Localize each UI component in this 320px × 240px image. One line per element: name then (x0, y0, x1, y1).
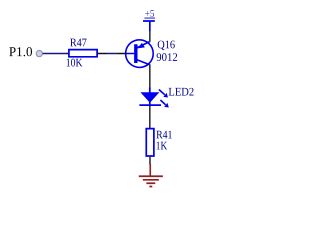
svg-text:R47: R47 (70, 36, 87, 49)
wire (107, 53, 118, 55)
resistor R47 (69, 50, 97, 57)
svg-text:P1.0: P1.0 (9, 44, 33, 59)
wire (149, 31, 151, 42)
svg-text:LED2: LED2 (168, 86, 194, 99)
svg-text:9012: 9012 (156, 51, 178, 64)
wire (149, 106, 151, 128)
svg-text:1K: 1K (156, 139, 168, 152)
resistor R41 (146, 129, 154, 156)
power +5 (143, 9, 155, 31)
svg-text:Q16: Q16 (157, 38, 175, 51)
svg-text:10K: 10K (66, 56, 83, 69)
wire (149, 156, 151, 165)
wire (149, 65, 151, 89)
LED LED2 (139, 88, 168, 108)
resistor R47 left pin (67, 52, 70, 54)
ground (139, 164, 163, 187)
transistor Q16 (126, 40, 154, 68)
resistor R47 right pin (97, 52, 107, 54)
pin terminal (36, 50, 42, 56)
wire (43, 52, 67, 54)
transistor Q16 base pin (118, 53, 128, 55)
